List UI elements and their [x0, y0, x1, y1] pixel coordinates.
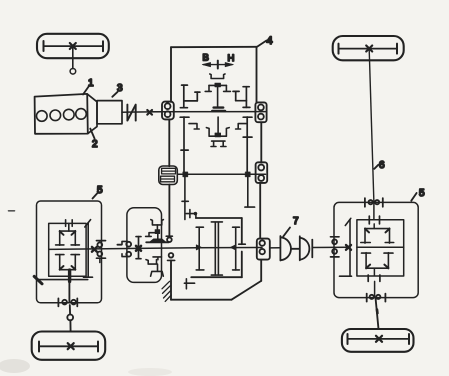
scan smudge bottom-center [128, 368, 172, 376]
svg-text:H: H [228, 53, 235, 64]
synchronizer lower-center [206, 117, 229, 147]
wheel rear-right [342, 329, 414, 352]
gearbox input shaft [152, 111, 266, 113]
wheel front-left [37, 34, 109, 58]
gear group lower-left long [180, 117, 189, 174]
transfer case housing [127, 208, 162, 283]
svg-text:5: 5 [419, 188, 425, 199]
cv joint front bottom [58, 298, 77, 306]
wheel rear-left [32, 332, 106, 360]
shaft diff to coupling [270, 247, 281, 249]
bearing input-left [162, 102, 174, 120]
front diff lower cage [56, 255, 80, 270]
rear diff lower cage [362, 253, 394, 269]
front diff box 5 outline [37, 201, 102, 303]
bearing circle above axle [166, 236, 172, 242]
label 3 [112, 83, 123, 97]
gear group upper-right [233, 87, 250, 108]
front axle lower output shaft [68, 282, 70, 302]
shaft coupling to rear box [312, 246, 348, 248]
label 4 [257, 35, 273, 47]
coupling dash [117, 244, 121, 246]
gearbox lower shaft [177, 173, 265, 175]
gear hook lower-right [236, 124, 247, 129]
synchronizer sleeve upper-center [205, 74, 230, 111]
front diff upper cage [56, 220, 80, 245]
rear diff top shaft ticks [369, 216, 379, 224]
line bearing-to-gearbox right [259, 183, 261, 239]
transfer gear bar with x [136, 237, 141, 259]
label 1 [83, 78, 94, 95]
label 5 right [411, 188, 425, 201]
front diff crown bar [84, 220, 93, 278]
stem below lower shaft left [182, 177, 188, 220]
bearing rear-box left [331, 237, 340, 257]
svg-text:B: B [203, 53, 209, 64]
gearbox right wall mid [260, 122, 262, 162]
svg-text:2: 2 [92, 139, 98, 150]
cv joint rear-box top [365, 198, 383, 207]
gear hook lower-left [189, 124, 199, 129]
front diff inner housing [49, 223, 86, 276]
hatching ground [162, 281, 171, 301]
shaft engine to gearbox [122, 111, 163, 113]
center diff side arrows [196, 245, 201, 250]
transfer input circles [122, 241, 131, 256]
clutch pack [159, 166, 178, 185]
bearing front-diff right [97, 241, 106, 263]
center diff cage [196, 222, 239, 275]
svg-text:1: 1 [88, 78, 94, 89]
svg-text:5: 5 [97, 185, 103, 196]
coupling 7 [280, 236, 312, 261]
junction lower shaft right [245, 172, 250, 177]
wheel top-right [333, 36, 404, 60]
worm mound with hatching [146, 239, 169, 242]
case hook bottom-left [184, 279, 194, 289]
rear diff bottom shaft ticks [368, 275, 380, 281]
label 2 [90, 129, 98, 150]
rear diff inner housing [357, 220, 404, 276]
junction lower shaft left [183, 172, 188, 177]
svg-text:3: 3 [117, 83, 123, 94]
stub to wheel rear-left [67, 305, 73, 332]
label 7 [283, 216, 299, 237]
center diff case [191, 218, 245, 277]
cv joint rear-box bottom [367, 294, 386, 302]
rear diff box 5 outline [334, 202, 418, 297]
rear housing bottom outline [171, 260, 261, 300]
elastic coupling (N symbol) [127, 105, 135, 121]
label 6 [374, 160, 385, 171]
stub to wheel rear-right [376, 298, 379, 329]
rear diff mid shaft [357, 246, 404, 248]
rear diff upper cage [361, 228, 394, 243]
bearing lower-right [256, 162, 268, 183]
scan artifact dash left edge [9, 210, 15, 212]
rear crown bar [340, 218, 352, 276]
shift arrow B-H [202, 61, 233, 69]
case hook top-left [186, 210, 197, 218]
svg-text:6: 6 [379, 160, 385, 171]
rear shaft through box [373, 202, 375, 219]
clutch housing 3 [97, 101, 122, 124]
gearbox left wall lower [168, 119, 170, 166]
svg-text:7: 7 [293, 216, 299, 227]
propeller shaft 6 [369, 50, 374, 203]
gearbox 4 outline [171, 47, 257, 103]
bell housing 2 [88, 94, 98, 133]
steering stub front-left [70, 47, 76, 74]
gear group lower-right long [243, 117, 252, 174]
front diff output X [92, 247, 97, 252]
transfer upper gear cup [146, 220, 164, 240]
label 5 left [93, 185, 104, 199]
front axle shaft [49, 248, 262, 250]
universal joint x [147, 110, 152, 115]
svg-text:4: 4 [267, 35, 273, 47]
bearing input-right [255, 102, 266, 122]
bearing circle below axle [168, 253, 175, 260]
rear box input X [346, 245, 351, 250]
bearing center-diff right [257, 239, 270, 260]
stem below lower shaft right [245, 177, 255, 207]
link gearbox to transfer line [168, 185, 170, 237]
scan smudge bottom-left [0, 359, 30, 373]
engine 1 [35, 94, 88, 134]
transfer lower gear group [146, 257, 163, 276]
front diff bevel line [34, 270, 87, 284]
gear group upper-left [180, 85, 200, 108]
